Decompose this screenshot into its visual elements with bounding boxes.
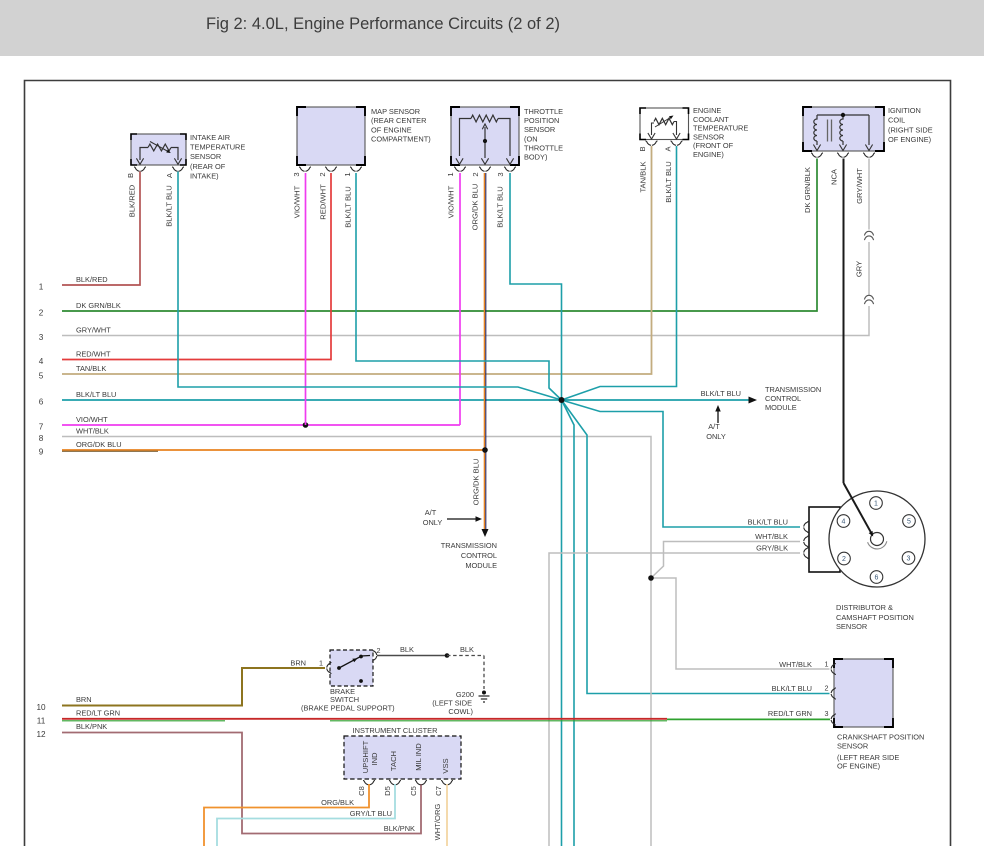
svg-text:C5: C5 [409, 786, 418, 796]
TPS pin numbers 1 2 3 [446, 172, 505, 176]
svg-text:IND: IND [370, 752, 379, 766]
label BLK/LT BLU at TCM arrow [701, 389, 741, 398]
svg-text:ONLY: ONLY [706, 432, 726, 441]
wire WHT/ORG from cluster C7 [446, 784, 448, 846]
svg-text:RED/WHT: RED/WHT [76, 349, 111, 358]
svg-text:5: 5 [39, 372, 44, 381]
svg-text:NCA: NCA [830, 168, 839, 185]
svg-text:2: 2 [318, 172, 327, 176]
svg-text:BLK/LT BLU: BLK/LT BLU [701, 389, 741, 398]
svg-text:MAP SENSOR: MAP SENSOR [371, 107, 420, 116]
vertical label BLK/LT BLU IAT pin A [165, 185, 174, 227]
wire GRY/WHT from ignition coil (circuit 3) [62, 159, 869, 336]
coil connector arcs [811, 153, 875, 157]
junction dot BLK/LT BLU bus [559, 397, 565, 403]
svg-text:3: 3 [292, 172, 301, 176]
svg-text:VIO/WHT: VIO/WHT [447, 185, 456, 218]
svg-text:ORG/DK BLU: ORG/DK BLU [472, 459, 481, 506]
wire NCA coil secondary vertical [843, 159, 845, 484]
svg-text:CONTROL: CONTROL [765, 394, 801, 403]
wire break symbols on GRY wire [864, 231, 873, 304]
vertical label TAN/BLK [639, 161, 648, 192]
vertical label GRY/WHT [855, 168, 864, 204]
svg-text:BLK: BLK [400, 645, 414, 654]
label BLK dashed [460, 645, 474, 654]
svg-text:BLK: BLK [460, 645, 474, 654]
label BLK [400, 645, 414, 654]
svg-text:2: 2 [842, 556, 846, 563]
svg-text:COMPARTMENT): COMPARTMENT) [371, 135, 431, 144]
A/T ONLY pointer left TCM [423, 508, 482, 527]
svg-text:ENGINE: ENGINE [693, 106, 721, 115]
transmission control module text (right) [765, 385, 821, 412]
svg-text:C8: C8 [357, 786, 366, 796]
wire BLK/PNK to instrument cluster (circuit 12) [62, 733, 421, 834]
ECT pin letters B A [638, 146, 673, 152]
wire BLK/LT BLU junction down leg 2 [562, 400, 575, 846]
vertical label GRY [855, 261, 864, 277]
svg-text:4: 4 [39, 357, 44, 366]
wire VIO/WHT from MAP pin 3 [305, 173, 307, 425]
wire TAN/BLK from ECT pin B (circuit 5) [62, 146, 652, 374]
svg-text:VIO/WHT: VIO/WHT [293, 185, 302, 218]
A/T ONLY pointer right TCM [706, 405, 726, 441]
svg-text:GRY/WHT: GRY/WHT [855, 168, 864, 204]
svg-text:Fig 2: 4.0L, Engine Performanc: Fig 2: 4.0L, Engine Performance Circuits… [206, 15, 560, 33]
svg-text:BLK/LT BLU: BLK/LT BLU [772, 684, 812, 693]
label GRY/BLK distributor [756, 544, 788, 553]
svg-text:(BRAKE PEDAL SUPPORT): (BRAKE PEDAL SUPPORT) [301, 704, 395, 713]
svg-text:UPSHIFT: UPSHIFT [361, 740, 370, 773]
svg-text:10: 10 [36, 703, 46, 712]
svg-text:2: 2 [377, 646, 381, 655]
svg-text:BLK/LT BLU: BLK/LT BLU [664, 161, 673, 203]
MAP connector arcs [299, 167, 362, 171]
wire WHT/BLK junction to distributor [651, 542, 800, 579]
thermistor symbol (ECT) [648, 114, 680, 139]
svg-text:CRANKSHAFT POSITION: CRANKSHAFT POSITION [837, 733, 924, 742]
svg-text:2: 2 [471, 172, 480, 176]
wire RED/LT GRN to crankshaft sensor pin 3 (circuit 11) [62, 719, 830, 721]
svg-text:D5: D5 [383, 786, 392, 796]
MAP pin numbers 3 2 1 [292, 172, 352, 176]
label row 5 TAN/BLK [39, 364, 107, 381]
svg-text:CONTROL: CONTROL [461, 551, 497, 560]
svg-text:ONLY: ONLY [423, 518, 443, 527]
vertical label ORG/DK BLU TPS pin 2 [471, 184, 480, 231]
svg-text:GRY/BLK: GRY/BLK [756, 544, 788, 553]
ignition coil windings and core [813, 115, 872, 151]
wire BRN to brake switch (circuit 10) [62, 668, 325, 706]
svg-text:TRANSMISSION: TRANSMISSION [765, 385, 821, 394]
svg-text:VSS: VSS [441, 758, 450, 773]
svg-text:COWL): COWL) [448, 707, 473, 716]
vertical label NCA [830, 168, 839, 185]
svg-text:B: B [638, 146, 647, 151]
title bar [0, 0, 984, 56]
svg-text:WHT/BLK: WHT/BLK [779, 660, 812, 669]
cluster label VSS [441, 758, 450, 773]
wire BLK/LT BLU bus (circuit 6) to TCM arrow [62, 397, 757, 404]
label RED/LT GRN pin 3 crank [768, 709, 829, 718]
svg-text:2: 2 [39, 309, 44, 318]
crankshaft position sensor text [837, 733, 924, 771]
svg-text:3: 3 [825, 709, 829, 718]
svg-text:RED/LT GRN: RED/LT GRN [768, 709, 812, 718]
svg-text:DK GRN/BLK: DK GRN/BLK [76, 301, 121, 310]
svg-text:3: 3 [496, 172, 505, 176]
svg-text:THROTTLE: THROTTLE [524, 107, 563, 116]
svg-text:COOLANT: COOLANT [693, 115, 729, 124]
svg-text:(REAR CENTER: (REAR CENTER [371, 116, 426, 125]
TPS connector arcs [454, 167, 516, 171]
junction dot ORG/DK BLU [482, 447, 488, 453]
svg-text:ENGINE): ENGINE) [693, 150, 724, 159]
ignition coil [803, 107, 884, 151]
distributor rotor centre and rotation arc [868, 533, 887, 549]
vertical label ORG/DK BLU lower [472, 459, 481, 506]
label BLK/LT BLU distributor [748, 518, 788, 527]
svg-text:MODULE: MODULE [765, 403, 797, 412]
wire BLK from brake switch [377, 655, 447, 657]
svg-text:SENSOR: SENSOR [837, 742, 868, 751]
svg-text:9: 9 [39, 448, 44, 457]
wire BLK/LT BLU from MAP pin 1 to junction [356, 173, 562, 400]
svg-text:BLK/RED: BLK/RED [128, 184, 137, 217]
wire DK GRN/BLK from ignition coil (circuit 2) [62, 159, 817, 312]
label BLK/PNK at cluster [384, 824, 415, 833]
transmission control module text (lower) [441, 541, 497, 570]
vertical label DK GRN/BLK [803, 167, 812, 213]
svg-text:DK GRN/BLK: DK GRN/BLK [803, 167, 812, 213]
svg-text:6: 6 [875, 575, 879, 582]
distributor connector arcs [804, 521, 808, 559]
svg-text:MODULE: MODULE [465, 561, 497, 570]
svg-text:C7: C7 [434, 786, 443, 796]
label row 11 RED/LT GRN [37, 709, 120, 726]
label row 3 GRY/WHT [39, 325, 112, 342]
svg-text:INTAKE): INTAKE) [190, 171, 219, 180]
label row 1 BLK/RED [39, 275, 108, 292]
svg-text:TEMPERATURE: TEMPERATURE [190, 143, 245, 152]
wire BLK/LT BLU from TPS pin 3 to junction [510, 173, 562, 400]
wire NCA rotor diagonal with arrow [844, 483, 876, 538]
IAT pin letters B A [126, 172, 174, 178]
crankshaft position sensor box [834, 659, 893, 727]
vertical label BLK/LT BLU MAP pin 1 [344, 186, 353, 228]
label row 6 BLK/LT BLU [39, 390, 117, 407]
svg-text:A/T: A/T [708, 422, 720, 431]
label ORG/BLK [321, 798, 354, 807]
svg-text:1: 1 [39, 283, 44, 292]
svg-text:POSITION: POSITION [524, 116, 559, 125]
cluster label MIL IND [414, 743, 423, 771]
label row 12 BLK/PNK [36, 722, 107, 739]
svg-text:INTAKE AIR: INTAKE AIR [190, 133, 230, 142]
brake switch box [330, 650, 373, 686]
MAP sensor U-MAP [297, 107, 365, 165]
junction dot BLK [445, 653, 450, 658]
ignition coil name text [888, 106, 933, 144]
svg-text:BRN: BRN [76, 695, 92, 704]
svg-text:WHT/ORG: WHT/ORG [433, 804, 442, 841]
svg-text:TAN/BLK: TAN/BLK [76, 364, 106, 373]
svg-text:ORG/DK BLU: ORG/DK BLU [76, 440, 122, 449]
cluster pin labels C8 D5 C5 C7 [357, 786, 443, 796]
distributor and camshaft position sensor text [836, 603, 914, 631]
IAT connector arcs [134, 167, 184, 171]
svg-text:SENSOR: SENSOR [693, 132, 724, 141]
brake switch contacts and arm [337, 655, 370, 683]
cluster label TACH [389, 751, 398, 771]
svg-text:1: 1 [343, 172, 352, 176]
svg-text:TAN/BLK: TAN/BLK [639, 161, 648, 192]
svg-text:ORG/DK BLU: ORG/DK BLU [471, 184, 480, 231]
svg-text:THROTTLE: THROTTLE [524, 143, 563, 152]
potentiometer symbol (TPS) [456, 115, 514, 164]
svg-text:7: 7 [39, 423, 44, 432]
svg-text:BODY): BODY) [524, 153, 547, 162]
wire BLK/RED from IAT pin B (circuit 1) [62, 172, 140, 286]
wire ORG/BLK from cluster C8 [204, 784, 369, 846]
svg-text:DISTRIBUTOR &: DISTRIBUTOR & [836, 603, 893, 612]
svg-text:1: 1 [874, 501, 878, 508]
label row 8 WHT/BLK [39, 426, 109, 443]
ground G200 [479, 691, 490, 703]
svg-text:TEMPERATURE: TEMPERATURE [693, 124, 748, 133]
crankshaft sensor connector arcs [831, 663, 835, 726]
label BRN at brake switch pin 1 [290, 659, 323, 668]
svg-text:(RIGHT SIDE: (RIGHT SIDE [888, 125, 933, 134]
svg-text:OF ENGINE): OF ENGINE) [837, 762, 880, 771]
svg-text:12: 12 [36, 730, 46, 739]
vertical label VIO/WHT TPS pin 1 [447, 185, 456, 218]
svg-text:GRY: GRY [855, 261, 864, 277]
wire BLK/LT BLU junction down leg 1 [561, 400, 563, 846]
vertical label VIO/WHT MAP pin 3 [293, 185, 302, 218]
label WHT/BLK pin 1 crank [779, 660, 828, 670]
svg-text:BLK/LT BLU: BLK/LT BLU [496, 186, 505, 228]
svg-text:IGNITION: IGNITION [888, 106, 921, 115]
intake air temperature sensor [131, 134, 186, 165]
wire GRY/BLK to distributor [549, 553, 800, 846]
svg-text:1: 1 [825, 660, 829, 669]
ground G200 text [432, 690, 474, 716]
svg-text:CAMSHAFT POSITION: CAMSHAFT POSITION [836, 613, 914, 622]
svg-text:(ON: (ON [524, 134, 538, 143]
label row 4 RED/WHT [39, 349, 111, 366]
wire GRY/LT BLU from cluster D5 [217, 784, 395, 846]
svg-text:1: 1 [446, 172, 455, 176]
wire VIO/WHT from TPS pin 1 [459, 173, 461, 425]
cluster connector arcs [363, 780, 453, 784]
label row 10 BRN [36, 695, 91, 712]
junction dot coil primary/secondary [841, 113, 845, 117]
ECT connector arcs [646, 141, 683, 145]
distributor connector box [809, 507, 840, 572]
IAT name text [190, 133, 245, 180]
svg-text:MIL IND: MIL IND [414, 743, 423, 771]
svg-text:3: 3 [39, 333, 44, 342]
svg-text:(FRONT OF: (FRONT OF [693, 141, 734, 150]
wire RED/WHT from MAP pin 2 (circuit 4) [62, 173, 331, 360]
label BLK/LT BLU pin 2 crank [772, 684, 829, 694]
vertical label BLK/RED [128, 184, 137, 217]
label row 7 VIO/WHT [39, 415, 108, 432]
svg-text:BLK/LT BLU: BLK/LT BLU [748, 518, 788, 527]
svg-text:BLK/PNK: BLK/PNK [384, 824, 415, 833]
wire BLK/LT BLU junction to crankshaft sensor pin 2 [562, 400, 830, 694]
engine coolant temperature sensor [640, 108, 689, 140]
svg-text:BRN: BRN [290, 659, 306, 668]
throttle position sensor [451, 107, 519, 165]
svg-text:BLK/LT BLU: BLK/LT BLU [76, 390, 116, 399]
svg-text:OF ENGINE: OF ENGINE [371, 125, 412, 134]
vertical label BLK/LT BLU TPS pin 3 [496, 186, 505, 228]
svg-text:A: A [664, 146, 673, 152]
label GRY/LT BLU [350, 809, 392, 818]
svg-text:RED/LT GRN: RED/LT GRN [76, 709, 120, 718]
svg-text:TRANSMISSION: TRANSMISSION [441, 541, 497, 550]
vertical label WHT/ORG [433, 804, 442, 841]
vertical label BLK/LT BLU ECT pin A [664, 161, 673, 203]
label WHT/BLK distributor [755, 532, 788, 541]
dashed wire BLK to ground G200 [447, 656, 484, 690]
distributor cap circle [829, 491, 925, 587]
thermistor symbol (IAT) [136, 142, 181, 165]
svg-text:11: 11 [37, 717, 46, 726]
junction dot WHT/BLK [648, 575, 654, 581]
cluster label UPSHIFT IND [361, 740, 379, 773]
wire VIO/WHT (circuit 7) [62, 424, 460, 426]
svg-text:BLK/LT BLU: BLK/LT BLU [344, 186, 353, 228]
svg-text:RED/WHT: RED/WHT [319, 184, 328, 220]
wire BLK/LT BLU from IAT pin A to junction [178, 172, 562, 401]
svg-text:BLK/RED: BLK/RED [76, 275, 108, 284]
ECT name text [693, 106, 748, 159]
svg-text:OF ENGINE): OF ENGINE) [888, 135, 931, 144]
instrument cluster title [353, 726, 438, 735]
svg-text:TACH: TACH [389, 751, 398, 771]
svg-text:1: 1 [319, 659, 323, 668]
svg-text:INSTRUMENT CLUSTER: INSTRUMENT CLUSTER [353, 726, 438, 735]
svg-text:B: B [126, 173, 135, 178]
svg-text:SENSOR: SENSOR [524, 125, 555, 134]
svg-text:A/T: A/T [425, 508, 437, 517]
svg-text:3: 3 [907, 556, 911, 563]
TPS name text [524, 107, 563, 162]
svg-text:6: 6 [39, 398, 44, 407]
svg-text:5: 5 [907, 519, 911, 526]
svg-text:WHT/BLK: WHT/BLK [755, 532, 788, 541]
wire WHT/BLK (circuit 8) [62, 437, 651, 579]
label row 2 DK GRN/BLK [39, 301, 121, 318]
svg-text:4: 4 [842, 519, 846, 526]
distributor terminal circles 1-6 [837, 497, 915, 584]
brake switch text [301, 687, 395, 713]
label pin 2 brake switch [377, 646, 381, 655]
svg-text:BLK/PNK: BLK/PNK [76, 722, 107, 731]
svg-text:8: 8 [39, 434, 44, 443]
svg-text:GRY/LT BLU: GRY/LT BLU [350, 809, 392, 818]
MAP name text [371, 107, 431, 144]
svg-text:ORG/BLK: ORG/BLK [321, 798, 354, 807]
svg-text:(REAR OF: (REAR OF [190, 162, 226, 171]
svg-text:WHT/BLK: WHT/BLK [76, 426, 109, 435]
label row 9 ORG/DK BLU [39, 440, 122, 457]
wire ORG/DK BLU (circuit 9) [62, 450, 485, 451]
svg-text:SENSOR: SENSOR [190, 152, 221, 161]
svg-text:A: A [165, 172, 174, 178]
wire ORG/DK BLU TPS pin 2 to transmission control module [482, 173, 489, 537]
wire WHT/BLK junction to crankshaft sensor pin 1 [651, 578, 830, 669]
svg-text:GRY/WHT: GRY/WHT [76, 325, 111, 334]
junction dot VIO/WHT [303, 422, 309, 428]
brake switch pin 1 connector arc [327, 662, 331, 674]
svg-text:BLK/LT BLU: BLK/LT BLU [165, 185, 174, 227]
svg-text:2: 2 [825, 684, 829, 693]
svg-text:VIO/WHT: VIO/WHT [76, 415, 108, 424]
wire BLK/LT BLU from ECT pin A to junction [562, 146, 677, 400]
brake switch pin 2 connector arc [372, 650, 376, 662]
instrument cluster box [344, 736, 461, 779]
wire BLK/LT BLU junction to distributor [562, 400, 801, 527]
wire WHT/BLK junction down leg [650, 578, 652, 846]
svg-text:SENSOR: SENSOR [836, 622, 867, 631]
vertical label RED/WHT MAP pin 2 [319, 184, 328, 220]
svg-text:COIL: COIL [888, 116, 905, 125]
